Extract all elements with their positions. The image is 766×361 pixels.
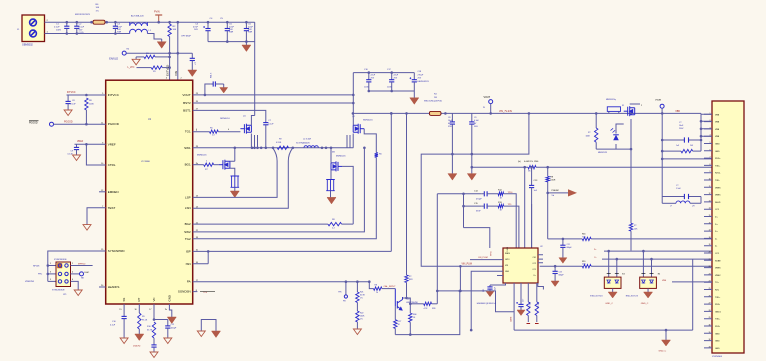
svg-text:LTC3880: LTC3880 <box>141 161 151 163</box>
svg-text:SW2: SW2 <box>184 230 191 234</box>
svg-text:RXCL: RXCL <box>715 173 721 175</box>
svg-text:22uF: 22uF <box>248 26 254 28</box>
ground C26 <box>551 281 559 287</box>
wire ISP drop from rail <box>390 113 392 251</box>
svg-text:1%: 1% <box>96 10 99 12</box>
svg-text:VSUB: VSUB <box>655 100 661 102</box>
wire TEST to ground <box>87 208 106 225</box>
capacitor C11 comp <box>153 338 155 345</box>
resistor R32 fuse jumper <box>607 107 620 112</box>
wire VOUT pin line <box>193 94 354 96</box>
wire ITH line <box>193 281 370 283</box>
diode D1 esd array <box>608 251 610 277</box>
svg-text:C21: C21 <box>483 289 485 292</box>
svg-text:4: 4 <box>72 272 73 274</box>
resistor R11 gate1 <box>210 130 219 133</box>
svg-text:TXD-: TXD- <box>715 180 720 182</box>
svg-text:COG: COG <box>79 32 84 34</box>
svg-text:(b): (b) <box>518 161 521 163</box>
wire Q3 gate riser <box>342 166 353 224</box>
svg-text:VREF2N5: VREF2N5 <box>25 281 35 283</box>
svg-text:EXTVLD: EXTVLD <box>166 65 170 76</box>
svg-text:ISN: ISN <box>186 262 191 266</box>
svg-text:35.7K: 35.7K <box>147 329 153 331</box>
svg-text:50V: 50V <box>229 29 233 31</box>
svg-text:TXD+: TXD+ <box>715 165 721 167</box>
svg-text:SBES: SBES <box>505 253 511 255</box>
svg-text:TP6: TP6 <box>338 292 341 294</box>
wire return line mid <box>421 113 529 266</box>
wire U2 aux elbow <box>538 283 544 290</box>
wire SGNDSN stub <box>193 291 198 293</box>
svg-text:VBEX: VBEX <box>715 275 721 277</box>
capacitor C4 bulk input <box>207 22 209 28</box>
svg-text:R?: R? <box>409 276 411 278</box>
svg-text:2: 2 <box>641 105 642 107</box>
wire aux bracket down <box>464 228 490 248</box>
ground header <box>74 290 82 296</box>
wire gate net link <box>437 291 514 312</box>
svg-text:100K: 100K <box>586 135 591 137</box>
svg-text:93.1K: 93.1K <box>142 319 148 321</box>
svg-text:250V: 250V <box>679 128 684 130</box>
svg-text:GBM5002: GBM5002 <box>22 44 33 47</box>
svg-text:ESD-SOT23: ESD-SOT23 <box>590 295 603 297</box>
resistor R16 sense bars phase2 <box>326 180 335 191</box>
wire BST2 line <box>193 102 354 104</box>
ground for C7 <box>188 70 197 77</box>
svg-text:C17: C17 <box>523 299 525 302</box>
resistor R19 610R <box>547 167 549 176</box>
resistor R2 vertical on EN feed <box>169 22 171 24</box>
wire staple gnd tie <box>201 320 216 332</box>
wire ISP line <box>193 250 392 252</box>
diode D2 esd array <box>642 251 644 277</box>
svg-text:33nF: 33nF <box>476 211 481 213</box>
wire TG2 line <box>193 157 377 239</box>
wire cal bottom rail <box>395 291 460 335</box>
svg-text:22uF: 22uF <box>394 75 399 77</box>
power flag PVIN <box>158 15 160 22</box>
ground divider <box>353 329 361 335</box>
resistor R1 input <box>93 20 105 24</box>
svg-text:C8: C8 <box>448 117 450 119</box>
svg-text:TG1: TG1 <box>185 130 191 134</box>
ground phase2 stage <box>327 197 336 204</box>
svg-text:TG2: TG2 <box>185 237 191 241</box>
svg-text:EN/ULD: EN/ULD <box>109 58 118 61</box>
svg-text:R?: R? <box>588 132 590 134</box>
svg-text:22uF: 22uF <box>117 26 123 28</box>
wire Q5 collector net <box>403 298 411 304</box>
svg-text:SW1: SW1 <box>184 146 191 150</box>
svg-text:M2N6L16: M2N6L16 <box>363 120 373 122</box>
svg-text:VBEX: VBEX <box>715 195 721 197</box>
capacitor C5 <box>226 22 228 28</box>
op-amp U2 bridge <box>503 248 538 283</box>
wire header row1 left <box>48 265 56 267</box>
port VBUS <box>660 104 664 108</box>
svg-text:MPH1Z: MPH1Z <box>78 263 86 265</box>
svg-text:DHC: DHC <box>85 272 90 274</box>
inductor L3 bead <box>662 202 676 204</box>
svg-text:INTVCC: INTVCC <box>108 93 120 97</box>
capacitor C15 boost1 <box>265 120 267 123</box>
svg-text:RT: RT <box>137 297 141 301</box>
svg-text:NP10S: NP10S <box>33 265 40 267</box>
svg-text:4.99K: 4.99K <box>276 142 282 144</box>
transistor Q4 top fet phase2 <box>353 124 364 134</box>
resistor R24 collector load <box>409 313 412 322</box>
svg-text:PGOOD: PGOOD <box>64 122 73 124</box>
resistor R22 cal <box>374 287 382 290</box>
svg-text:D+: D+ <box>534 275 536 277</box>
capacitor bank top rail <box>353 72 414 74</box>
port PGOOD <box>50 122 54 126</box>
svg-text:50V: 50V <box>248 29 252 31</box>
ground C25 <box>559 258 567 264</box>
wire line CC to connector <box>548 238 563 240</box>
wire R26 down to U2 <box>504 194 517 248</box>
resistor R35 on vbus sense <box>629 223 632 231</box>
connector J2 main <box>712 101 744 353</box>
resistor R10 comp <box>152 322 155 338</box>
wire vbus branch down <box>661 113 663 203</box>
wire VIN rail <box>353 112 430 114</box>
resistor R7 pgood pullup <box>85 98 88 110</box>
svg-text:PGOOD: PGOOD <box>29 123 38 125</box>
resistor R33 100K <box>595 128 598 142</box>
svg-text:D-: D- <box>594 257 596 259</box>
wire SYNC bus to header <box>48 251 106 281</box>
resistor R29 22R <box>536 283 538 302</box>
wire VREF line <box>75 143 106 145</box>
svg-text:0.1uF: 0.1uF <box>474 120 480 122</box>
svg-text:BG2: BG2 <box>185 222 191 226</box>
wire Q3 source to sense <box>330 170 332 180</box>
svg-text:F1: F1 <box>622 105 624 107</box>
svg-text:22uF: 22uF <box>229 26 235 28</box>
wire BG2 line <box>193 223 328 225</box>
svg-text:TEST: TEST <box>108 206 116 210</box>
svg-text:X5R: X5R <box>117 32 122 34</box>
svg-text:0.1uF: 0.1uF <box>79 27 85 29</box>
wire cap bank bottom bus <box>208 41 255 43</box>
wire header row3 left <box>48 280 56 282</box>
ground C25b <box>486 292 494 297</box>
svg-text:1: 1 <box>50 263 51 265</box>
svg-text:22uF: 22uF <box>371 75 376 77</box>
transistor Q5 npn cal <box>395 289 402 310</box>
resistor R34 bleed <box>662 150 681 152</box>
wire U2 pin riser d <box>531 204 533 248</box>
svg-text:ON_PLIM: ON_PLIM <box>478 257 488 259</box>
svg-text:C?: C? <box>676 185 678 187</box>
svg-text:GND: GND <box>505 271 510 273</box>
capacitor C9 on VREF <box>76 144 78 147</box>
ground C20 <box>467 174 476 181</box>
wire BST1 line <box>193 110 266 120</box>
svg-text:HS08008 QFN24-14: HS08008 QFN24-14 <box>477 303 497 305</box>
svg-text:5: 5 <box>50 279 51 281</box>
ground C9 <box>73 155 81 161</box>
resistor R13 sense bars phase1 <box>231 176 240 187</box>
capacitor C12 comp hf <box>167 320 169 326</box>
port TP test point <box>345 282 347 295</box>
svg-text:CC1: CC1 <box>532 269 536 271</box>
svg-text:MMSXXXq: MMSXXXq <box>606 99 616 101</box>
port VOUT <box>489 100 493 104</box>
wire LEADFS stub <box>99 286 106 288</box>
svg-text:SGNDSN: SGNDSN <box>178 290 191 294</box>
svg-text:0.00R 1% 1206: 0.00R 1% 1206 <box>524 161 539 163</box>
power arrow PSENC <box>568 189 577 196</box>
capacitor C2 <box>76 22 78 26</box>
wire LSN kelvin line <box>193 148 293 208</box>
svg-text:XLSTRA4040S: XLSTRA4040S <box>296 142 310 145</box>
capacitor C16 <box>368 73 370 80</box>
svg-text:PA: PA <box>187 280 191 284</box>
wire EMDEN stub <box>99 191 106 193</box>
wire collector to R25 <box>410 303 423 305</box>
ground staple right <box>212 331 221 338</box>
svg-text:VREF: VREF <box>77 141 84 143</box>
svg-text:GND1: GND1 <box>715 311 722 313</box>
svg-text:R22: R22 <box>360 313 363 315</box>
svg-text:PHC: PHC <box>38 274 43 276</box>
wire vbb to connector bracket <box>662 113 701 151</box>
svg-text:M2N6L16: M2N6L16 <box>220 118 230 120</box>
capacitor C21 psenc <box>531 167 533 185</box>
wire TG1 line <box>193 131 210 133</box>
svg-text:W: W <box>483 107 485 109</box>
svg-text:100V: 100V <box>56 30 62 32</box>
wire Q1 drain <box>251 116 254 126</box>
capacitor C23 33nF <box>484 204 487 209</box>
wire R25 up to VIN_PLIM <box>432 303 438 305</box>
resistor R25 4.7K <box>424 302 432 305</box>
svg-text:ACT45B-220: ACT45B-220 <box>131 15 144 18</box>
wire input top rail <box>45 21 255 23</box>
svg-text:250kHz: 250kHz <box>133 346 140 348</box>
ground GND_C main <box>665 330 667 340</box>
resistor R17 shunt <box>429 111 441 115</box>
svg-text:GND_C: GND_C <box>605 303 613 305</box>
svg-text:R8: R8 <box>375 284 377 286</box>
svg-text:50V: 50V <box>79 29 83 31</box>
wire line D2 to connector <box>540 265 712 267</box>
resistor R30 75R <box>582 237 591 240</box>
ground esd 2 <box>647 288 649 292</box>
svg-text:X5R: X5R <box>248 32 253 34</box>
svg-text:EEVBLK1P0: EEVBLK1P0 <box>418 81 430 83</box>
connector J1 screw terminal <box>22 15 45 42</box>
wire EXTVCC vertical to IC pin <box>169 53 171 80</box>
svg-text:R26: R26 <box>432 308 435 310</box>
svg-text:100K: 100K <box>360 316 365 318</box>
svg-text:470pF: 470pF <box>476 198 482 200</box>
svg-text:MMS2525: MMS2525 <box>598 152 608 154</box>
capacitor C17 <box>391 73 393 80</box>
svg-text:VBES: VBES <box>715 187 721 189</box>
svg-text:M2N6L16: M2N6L16 <box>336 155 346 157</box>
svg-text:SHU1: SHU1 <box>715 202 721 204</box>
wire INTVCC line <box>67 94 106 96</box>
svg-text:INTVCC: INTVCC <box>67 92 76 94</box>
capacitor C1 <box>66 22 68 26</box>
svg-text:L_LTN: L_LTN <box>128 67 135 69</box>
svg-text:VIN_7V-24V: VIN_7V-24V <box>499 110 513 113</box>
wire PSENC line <box>548 192 568 194</box>
svg-text:CS1: CS1 <box>533 257 537 259</box>
wire choke bottom to ground <box>147 34 161 40</box>
transistor Q6 pfet <box>624 106 635 116</box>
svg-text:3: 3 <box>50 272 51 274</box>
svg-text:4: 4 <box>228 129 229 131</box>
capacitor C20 out <box>471 113 473 122</box>
wire SW1 line <box>193 147 354 149</box>
wire VC node <box>153 304 155 320</box>
capacitor C22 470pF <box>484 191 487 196</box>
svg-text:LSN: LSN <box>185 206 191 210</box>
svg-text:C9: C9 <box>474 117 476 119</box>
ground C24 <box>517 310 525 316</box>
ground C12 <box>164 338 172 344</box>
wire Q4 source pads <box>347 134 353 148</box>
svg-text:GND_C: GND_C <box>659 351 667 353</box>
port EN/UVLO <box>122 51 126 55</box>
svg-text:SYNCMODE: SYNCMODE <box>52 290 65 292</box>
transistor Q1 top fet phase1 <box>240 124 251 134</box>
svg-text:50V: 50V <box>117 29 121 31</box>
connector JP1 sync header <box>56 262 71 287</box>
inductor L2 output <box>304 146 318 148</box>
wire Q1 source to SW <box>251 134 257 148</box>
ground SS <box>120 338 128 344</box>
wire gate gnd_c rail <box>514 259 693 330</box>
svg-text:PGOOD: PGOOD <box>108 122 120 126</box>
wire gnd pins line1 <box>662 158 712 160</box>
svg-text:VBB: VBB <box>715 114 720 116</box>
capacitor C28 y-cap2 <box>662 196 701 198</box>
svg-text:VBB: VBB <box>715 136 720 138</box>
wire Q2 source to sense <box>230 168 235 176</box>
svg-text:VIN_PLIM: VIN_PLIM <box>462 264 473 266</box>
wire input bottom rail <box>45 33 130 35</box>
resistor R12 gate1b <box>204 163 214 166</box>
svg-text:VBB: VBB <box>675 111 680 113</box>
svg-text:R06: R06 <box>413 314 416 316</box>
svg-text:VREF: VREF <box>108 142 116 146</box>
capacitor C10 soft-start <box>123 304 125 316</box>
svg-text:1%: 1% <box>360 319 363 321</box>
resistor R28 22R <box>527 283 529 302</box>
svg-text:1%: 1% <box>360 298 363 300</box>
svg-text:RXD-: RXD- <box>715 304 720 306</box>
svg-text:XXXNN06: XXXNN06 <box>712 356 723 358</box>
resistor R9 RT <box>138 304 140 313</box>
resistor R26 1K <box>498 192 504 195</box>
svg-text:BG1: BG1 <box>185 163 191 167</box>
svg-text:47uF: 47uF <box>193 26 199 28</box>
svg-text:VC: VC <box>152 297 156 301</box>
capacitor C27 y-cap <box>662 139 701 141</box>
svg-text:VBB: VBB <box>715 122 720 124</box>
svg-text:RXD+: RXD+ <box>715 158 721 160</box>
svg-text:270uF: 270uF <box>418 75 424 77</box>
ground esd 1 <box>612 288 614 292</box>
wire VIN vertical to IC pin <box>177 22 179 80</box>
wire Q2 drain to SW <box>230 148 235 161</box>
wire U2 left pin ON_PLIM <box>470 259 503 261</box>
ground RT <box>135 334 144 341</box>
svg-text:GND_C: GND_C <box>641 303 649 305</box>
svg-text:1: 1 <box>196 129 197 131</box>
svg-text:2M: 2M <box>434 97 437 99</box>
svg-text:CC2: CC2 <box>532 263 536 265</box>
svg-text:LEADFS: LEADFS <box>108 285 120 289</box>
svg-text:2: 2 <box>72 263 73 265</box>
svg-text:D-: D- <box>715 238 718 240</box>
svg-text:680pF: 680pF <box>559 275 565 277</box>
op-amp U1 controller <box>106 80 193 304</box>
svg-text:L2 3.3uH: L2 3.3uH <box>303 139 312 141</box>
svg-text:CAL_INPUT: CAL_INPUT <box>384 285 397 288</box>
svg-text:GND: GND <box>715 333 720 335</box>
resistor R20 divider top <box>356 292 359 303</box>
capacitor C26 680pF <box>554 266 556 271</box>
wire phase2 drain vertical <box>352 73 354 126</box>
svg-text:ESD-SOT23: ESD-SOT23 <box>626 295 639 297</box>
svg-text:VBE: VBE <box>662 280 667 282</box>
ground phase1 stage <box>230 191 239 198</box>
svg-text:VOUT: VOUT <box>484 96 491 99</box>
diode D3 zener <box>613 134 619 136</box>
svg-text:L?: L? <box>670 206 672 208</box>
ground TEST <box>83 225 91 231</box>
ground small for divider <box>135 57 137 59</box>
wire U2 bottom gate <box>513 283 515 330</box>
svg-text:EMDEN: EMDEN <box>108 190 119 194</box>
wire Q3 drain to SW <box>330 148 332 163</box>
transistor Q3 bottom fet phase2 <box>331 161 342 171</box>
svg-text:R2 22R: R2 22R <box>529 301 531 308</box>
resistor R23 emitter <box>394 320 397 329</box>
wire header row3 right to ground <box>71 281 79 290</box>
svg-text:X5R: X5R <box>229 32 234 34</box>
wire D+ line <box>604 250 712 252</box>
wire SW2 line <box>193 148 365 232</box>
svg-text:VIN: VIN <box>174 71 178 76</box>
ground vout snub <box>220 88 228 94</box>
svg-text:R21: R21 <box>360 292 363 294</box>
wire vbb pin stubs <box>701 114 712 136</box>
svg-text:GND: GND <box>167 295 171 301</box>
wire U2 right stubs <box>538 255 543 263</box>
svg-text:C23: C23 <box>559 272 562 274</box>
resistor R18 0R jumper <box>528 166 536 169</box>
wire Q5 emitter <box>394 306 396 320</box>
capacitor C24 1uF bottom <box>520 283 522 304</box>
svg-text:R?: R? <box>634 225 636 227</box>
ground cap bank <box>245 42 247 45</box>
svg-text:VOUT: VOUT <box>182 93 191 97</box>
svg-text:MXXXXXXXXX: MXXXXXXXXX <box>75 14 90 16</box>
svg-text:GND: GND <box>715 348 720 350</box>
svg-text:GND: GND <box>715 151 720 153</box>
svg-text:R16: R16 <box>582 234 585 236</box>
wire R27 down to U2 <box>504 206 519 248</box>
